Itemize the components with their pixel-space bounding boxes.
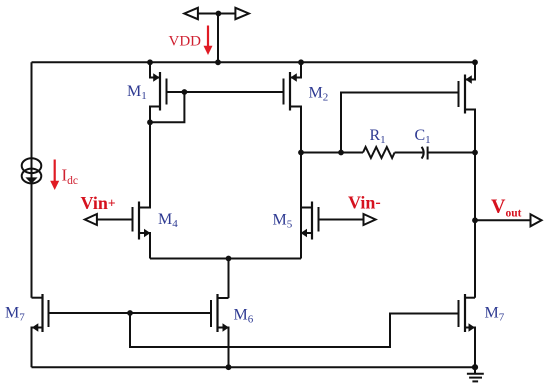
transistor M5 [301, 202, 319, 259]
transistor M4 [133, 122, 151, 258]
node M2 source on rail [298, 59, 304, 65]
wire C1 to output node [428, 152, 475, 154]
capacitor C1 [422, 147, 428, 160]
transistor M1 [150, 62, 167, 122]
node M6 source on ground [226, 364, 232, 370]
node gate bias junction [127, 310, 133, 316]
wire Vout lead [475, 219, 531, 221]
node first stage output [298, 150, 304, 156]
transistor M6 [211, 294, 229, 367]
node top terminal junction [216, 11, 222, 17]
node ground junction [472, 364, 478, 370]
node M1 gate junction [182, 89, 188, 95]
terminal Vin+ arrow [85, 214, 97, 225]
wire VDD drop [217, 14, 219, 63]
wire output column [474, 113, 476, 298]
wire VDD rail [32, 61, 476, 63]
node VDD on rail [215, 59, 221, 65]
wire gate bias line [130, 313, 459, 347]
wire M7-M6 gate [49, 312, 212, 314]
node M1 source on rail [147, 59, 153, 65]
wire ground rail [32, 366, 476, 368]
node M3 gate tap [338, 150, 344, 156]
wire R1 to C1 [395, 152, 423, 154]
node tail junction [226, 256, 232, 262]
transistor M2 [284, 62, 302, 110]
svg-text:VDD: VDD [169, 34, 202, 50]
svg-text:Vin+: Vin+ [81, 193, 116, 213]
wire node to R1 [301, 152, 363, 154]
node compensation at output [472, 150, 478, 156]
terminal Vin- arrow [364, 214, 376, 225]
wire M1 drain to M4 drain [149, 107, 151, 208]
transistor M7 right [459, 294, 476, 367]
transistor M7 left [32, 294, 49, 367]
resistor R1 [363, 147, 395, 158]
terminal Vout arrow [531, 214, 542, 226]
node rail right end [472, 59, 478, 65]
wire tail node horizontal [150, 258, 301, 260]
wire tail to M6 drain [228, 259, 230, 299]
wire M2 drain to M5 drain [300, 107, 302, 208]
wire left branch vertical [31, 62, 33, 297]
red arrow Idc [50, 160, 59, 191]
svg-text:Vin-: Vin- [348, 193, 381, 213]
ground symbol [467, 367, 484, 381]
transistor M3 output PMOS [459, 62, 476, 113]
wire M3 gate link [341, 93, 459, 153]
red arrow VDD current [204, 26, 213, 56]
wire Vin+ lead [97, 219, 133, 221]
current source Idc symbol [22, 158, 42, 184]
node M1 drain junction [147, 119, 153, 125]
node Vout tap [472, 217, 478, 223]
wire M1 diode connection [150, 92, 184, 122]
wire Vin- lead [319, 219, 364, 221]
VDD terminal line with open arrows [184, 8, 249, 19]
wire M1-M2 gate [167, 91, 284, 93]
